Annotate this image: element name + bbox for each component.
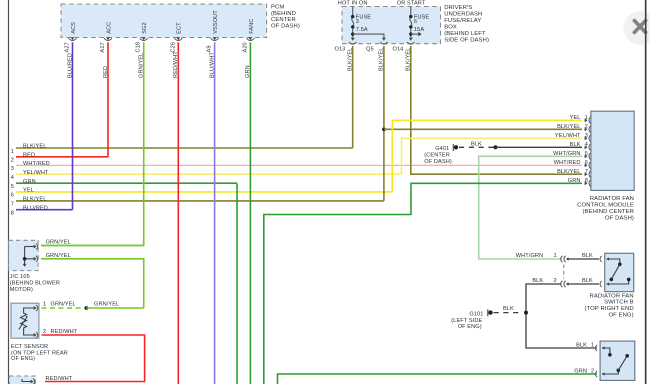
svg-text:1: 1 [585,115,588,121]
connector at ACC [106,37,110,40]
svg-text:YEL/WHT: YEL/WHT [23,170,49,176]
J/C 105 box [9,240,39,270]
fuse 3 7.5A [352,7,354,38]
svg-text:A27: A27 [65,42,71,52]
svg-text:15A: 15A [414,27,424,33]
splice node on BLK drop [524,311,528,315]
svg-text:GRN: GRN [23,179,36,185]
svg-text:GRN/YEL: GRN/YEL [46,240,71,246]
svg-text:2: 2 [43,329,46,335]
svg-text:RADIATOR FAN: RADIATOR FAN [590,293,634,299]
dashed connector link [563,265,565,279]
splice node on BLK [494,145,498,149]
wire BLU/WHT from VSSOUT down off bottom [214,42,216,384]
svg-text:BLK/YEL: BLK/YEL [557,124,580,130]
svg-text:ECT: ECT [177,22,183,34]
svg-text:7: 7 [11,202,14,208]
svg-text:(BEHIND CENTER: (BEHIND CENTER [583,209,634,215]
svg-text:WHT/GRN: WHT/GRN [516,253,543,259]
svg-text:YEL: YEL [570,115,581,121]
svg-text:BOX: BOX [444,24,457,30]
svg-text:CENTER: CENTER [271,17,296,23]
wire BLK dashed G401 to splice [459,146,496,148]
wire O13 BLK/YEL down then left to row1 [352,46,354,148]
ground G401 [452,144,454,151]
wire row8 BLU/RED [16,209,73,211]
left frame border [8,0,10,384]
svg-text:SIDE OF DASH): SIDE OF DASH) [444,38,489,44]
wire BLK switch pin1 [568,258,600,260]
svg-text:(TOP RIGHT END: (TOP RIGHT END [585,306,634,312]
svg-text:GRN: GRN [574,368,587,374]
svg-text:(LEFT SIDE: (LEFT SIDE [451,318,482,324]
fuse 6 15A [410,7,412,38]
wire GRN/YEL J/C pin1 (to SG2 drop) [41,245,144,247]
wire GRN/YEL J/C pin2 down to ECT pin1 [41,259,144,308]
wire GRN row5 drop at 237 [236,183,238,384]
wire Q5 BLK/YEL down to row7 [383,46,385,201]
right frame border [645,0,647,384]
svg-text:BLK/YEL: BLK/YEL [405,48,411,71]
svg-text:G101: G101 [469,311,483,317]
svg-text:GRN/YEL: GRN/YEL [46,253,71,259]
J/C internal bus [24,247,26,265]
svg-text:C26: C26 [170,42,176,53]
svg-text:BLK: BLK [532,278,543,284]
svg-text:(BEHIND BLOWER: (BEHIND BLOWER [10,281,60,287]
svg-text:BLK: BLK [582,253,593,259]
svg-text:6: 6 [11,193,14,199]
svg-text:BLU/RED: BLU/RED [67,53,73,78]
svg-text:(CENTER: (CENTER [424,153,450,159]
svg-text:BLU/WHT: BLU/WHT [209,52,215,78]
svg-text:(BEHIND: (BEHIND [271,11,296,17]
fuse3 branch to Q5 [353,34,384,38]
wire row5 GRN [16,182,237,184]
svg-text:2: 2 [554,278,557,284]
connector at VSSOUT [213,37,217,40]
svg-text:2: 2 [591,368,594,374]
connector arcs at switch box [600,256,602,262]
svg-text:A17: A17 [100,42,106,52]
svg-text:ACS: ACS [71,22,77,34]
svg-text:O13: O13 [335,46,346,52]
wire BLU/RED from ACS down to row8 [72,42,74,210]
wire GRN to bottom switch pin2 [278,374,598,384]
svg-text:C18: C18 [136,42,142,53]
wire GRN/YEL ECT pin1 dashed then solid [42,307,85,309]
wire GRN module pin8 route down-left [264,183,582,384]
svg-text:Q5: Q5 [366,46,374,52]
wire row7 BLK/YEL [16,200,384,202]
wire YEL/WHT module pin3 to row4 [402,138,583,174]
wire GRN from FANC down off bottom [249,42,251,384]
svg-text:5: 5 [585,151,588,157]
svg-text:7: 7 [585,169,588,175]
svg-text:BLK: BLK [503,306,514,312]
svg-text:RED/WHT: RED/WHT [46,376,73,382]
svg-text:SWITCH B: SWITCH B [604,300,634,306]
svg-text:GRN: GRN [568,178,581,184]
connector at O13 [351,38,355,41]
svg-text:BLU/RED: BLU/RED [23,205,48,211]
svg-text:FANC: FANC [249,18,255,33]
switch B internal contacts [606,257,609,260]
connector at Q5 [382,38,386,41]
svg-text:6: 6 [414,19,417,25]
fuse box [342,7,441,44]
svg-text:UNDERDASH: UNDERDASH [444,11,482,17]
svg-text:8: 8 [585,178,588,184]
wire RED from ACC down to row2 [107,42,109,157]
close button [624,11,650,45]
svg-text:OF DASH): OF DASH) [424,159,452,165]
svg-text:5: 5 [11,184,14,190]
svg-text:6: 6 [585,160,588,166]
connector pair C between module and switch [561,256,563,262]
connector at ACS [71,37,75,40]
svg-text:1: 1 [554,253,557,259]
connector at ECT [176,37,180,40]
svg-text:ACC: ACC [106,22,112,34]
wire O14 BLK/YEL down then right to module pin7 [411,46,582,174]
svg-text:WHT/RED: WHT/RED [554,160,581,166]
bottom switch box [600,341,635,380]
fuse6 arrow right continuation [411,33,419,35]
wire row6 YEL [16,191,392,193]
svg-text:RED: RED [23,152,35,158]
svg-text:HOT IN ON: HOT IN ON [338,0,368,6]
wire row3 WHT/RED full to module pin6 [16,164,582,166]
svg-text:FUSE/RELAY: FUSE/RELAY [444,18,481,24]
svg-text:A9: A9 [207,45,213,52]
svg-text:PCM: PCM [271,5,284,11]
svg-text:BLK: BLK [576,342,587,348]
svg-text:OF DASH): OF DASH) [605,215,634,221]
svg-text:4: 4 [585,142,588,148]
svg-text:BLK: BLK [582,278,593,284]
wire BLK solid to module pin4 [496,146,583,148]
svg-text:VSSOUT: VSSOUT [213,10,219,34]
svg-text:BLK/YEL: BLK/YEL [347,48,353,71]
svg-text:3: 3 [11,166,14,172]
svg-text:GRN: GRN [245,65,251,78]
svg-text:YEL: YEL [23,188,34,194]
svg-text:RED: RED [103,66,109,78]
svg-text:2: 2 [11,158,14,164]
connector at SG2 [142,37,146,40]
svg-text:BLK/YEL: BLK/YEL [23,197,46,203]
svg-text:RED/WHT: RED/WHT [51,329,78,335]
wire YEL module pin1 to row6 [392,120,582,192]
svg-text:BLK: BLK [570,142,581,148]
svg-text:WHT/GRN: WHT/GRN [553,151,580,157]
svg-text:OR START: OR START [397,0,426,6]
svg-text:2: 2 [585,124,588,130]
svg-text:YEL/WHT: YEL/WHT [555,133,581,139]
svg-text:OF ENG): OF ENG) [11,356,35,362]
bottom junction box [9,376,35,384]
svg-text:G401: G401 [435,146,449,152]
svg-text:BLK/YEL: BLK/YEL [557,169,580,175]
wire BLK pin2 right segment [568,283,600,285]
svg-text:J/C 105: J/C 105 [10,274,30,280]
svg-text:DRIVER'S: DRIVER'S [444,5,472,11]
svg-text:3: 3 [585,133,588,139]
svg-text:WHT/RED: WHT/RED [23,161,50,167]
wire WHT/GRN module pin5 down to switch row [479,156,582,259]
svg-text:SG2: SG2 [142,22,148,34]
svg-text:A20: A20 [242,42,248,52]
radiator fan control module box [591,111,634,190]
svg-text:OF ENG): OF ENG) [458,324,482,330]
PCM box [61,4,267,38]
svg-text:RADIATOR FAN: RADIATOR FAN [590,196,634,202]
ECT sensor box [11,303,39,338]
svg-text:BLK/YEL: BLK/YEL [23,144,46,150]
junction dot Q5 to module pin2 [382,128,386,132]
svg-text:BLK: BLK [471,142,482,148]
svg-text:O14: O14 [393,46,404,52]
wire BLK dashed G101 to splice [494,312,523,314]
module pin connectors and labels [585,118,588,185]
svg-text:4: 4 [11,175,14,181]
svg-text:(BEHIND LEFT: (BEHIND LEFT [444,31,486,37]
wire row1 BLK/YEL [16,147,353,149]
svg-text:BLK/YEL: BLK/YEL [379,48,385,71]
radiator fan switch B box [605,253,634,291]
wire row2 RED [16,156,108,158]
wire RED/WHT ECT pin2 right then down [42,335,145,382]
svg-text:OF DASH): OF DASH) [271,24,300,30]
wire BLK/YEL to module pin2 [384,128,582,130]
thermistor symbol [21,308,35,335]
svg-text:GRN/YEL: GRN/YEL [51,302,76,308]
wire BLK switch pin2 left to ground drop [526,284,597,348]
svg-text:ECT SENSOR: ECT SENSOR [11,344,48,350]
svg-text:RED/WHT: RED/WHT [173,51,179,78]
svg-text:MOTOR): MOTOR) [10,287,33,293]
svg-text:7.5A: 7.5A [356,27,368,33]
svg-text:OF ENG): OF ENG) [608,313,633,319]
wire GRN/YEL from SG2 down then left to J/C pin1 [41,42,144,245]
bottom switch internal contacts [602,346,605,349]
svg-text:8: 8 [11,211,14,217]
bottom J/C internal [22,379,31,382]
svg-text:1: 1 [11,149,14,155]
svg-text:CONTROL MODULE: CONTROL MODULE [577,203,634,209]
svg-text:GRN/YEL: GRN/YEL [139,53,145,78]
wire row4 YEL/WHT [16,173,402,175]
svg-text:1: 1 [591,342,594,348]
connector at FANC [249,37,253,40]
connector arcs at bottom switch [595,345,597,351]
svg-text:GRN/YEL: GRN/YEL [94,302,119,308]
connector at O14 [409,38,413,41]
wire RED/WHT from ECT down off bottom [177,42,179,384]
svg-text:3: 3 [356,19,359,25]
svg-text:1: 1 [43,302,46,308]
